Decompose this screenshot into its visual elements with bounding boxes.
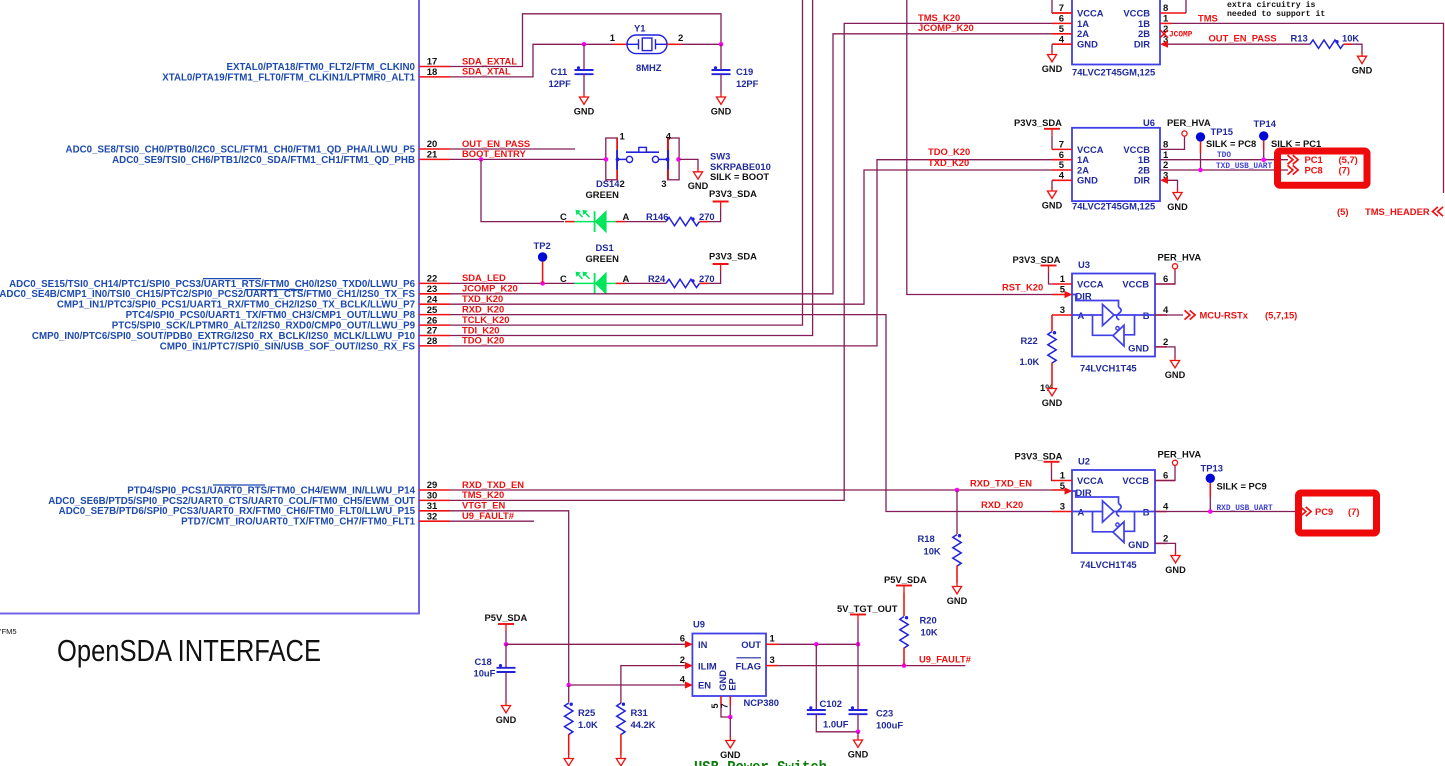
capacitor C23 bbox=[849, 709, 868, 711]
PER_HVA pin circle U2 bbox=[1172, 460, 1177, 465]
svg-text:R13: R13 bbox=[1291, 33, 1308, 44]
node OUT / 5V_TGT_OUT bbox=[856, 642, 861, 647]
svg-text:USB Power Switch: USB Power Switch bbox=[694, 759, 827, 766]
svg-text:R24: R24 bbox=[648, 273, 666, 284]
wire U9_FAULT# pin32 dangling bbox=[450, 520, 534, 522]
U6 pin8 wire to PER_HVA bbox=[1160, 137, 1185, 150]
wire R18 to gnd bbox=[956, 566, 958, 584]
svg-text:PC8: PC8 bbox=[1305, 164, 1323, 175]
svg-text:SILK = BOOT: SILK = BOOT bbox=[710, 171, 769, 182]
svg-text:TMS_K20: TMS_K20 bbox=[462, 489, 504, 500]
svg-text:P5V_SDA: P5V_SDA bbox=[884, 574, 927, 585]
svg-text:U9_FAULT#: U9_FAULT# bbox=[919, 654, 972, 665]
pin 26 stub on K20 box bbox=[419, 324, 450, 326]
svg-text:EN: EN bbox=[698, 680, 711, 691]
power P3V3_SDA at U2 bbox=[1044, 461, 1060, 463]
wire RXD_TXD_EN junction to U2 DIR bbox=[957, 489, 1052, 491]
wire SW3 to gnd bbox=[679, 159, 698, 168]
wire P5V to U9 IN bbox=[505, 631, 507, 644]
svg-text:CMP0_IN0/PTC6/SPI0_SOUT/PDB0_E: CMP0_IN0/PTC6/SPI0_SOUT/PDB0_EXTRG/I2S0_… bbox=[32, 331, 416, 342]
svg-text:PER_HVA: PER_HVA bbox=[1158, 252, 1202, 263]
wire JCOMP_K20 pin23 to U5 bbox=[450, 34, 1052, 294]
wire crystal pin2 to C19 node bbox=[681, 43, 721, 45]
capacitor C11 bbox=[575, 69, 594, 71]
U3 pin1 stub bbox=[1052, 283, 1072, 285]
pin 18 stub on K20 box bbox=[419, 76, 450, 78]
svg-text:5: 5 bbox=[710, 703, 720, 708]
svg-text:1.0K: 1.0K bbox=[578, 719, 598, 730]
power 5V_TGT_OUT bbox=[850, 614, 866, 616]
svg-text:270: 270 bbox=[699, 273, 715, 284]
U2 pin3 stub bbox=[1052, 511, 1072, 513]
svg-text:GND: GND bbox=[574, 106, 595, 116]
wire R22 to gnd bbox=[1051, 363, 1053, 386]
svg-text:P3V3_SDA: P3V3_SDA bbox=[1013, 254, 1061, 265]
svg-text:P3V3_SDA: P3V3_SDA bbox=[709, 188, 757, 199]
node SW3 pin4 bbox=[676, 157, 681, 162]
svg-text:OUT_EN_PASS: OUT_EN_PASS bbox=[462, 138, 530, 149]
svg-text:ADC0_SE9/TSI0_CH6/PTB1/I2C0_SD: ADC0_SE9/TSI0_CH6/PTB1/I2C0_SDA/FTM1_CH1… bbox=[112, 155, 415, 166]
U2 internal bottom buffer triangle bbox=[1113, 522, 1124, 543]
svg-text:4: 4 bbox=[680, 675, 686, 686]
svg-text:SDA_XTAL: SDA_XTAL bbox=[462, 66, 511, 77]
U3 pin2 stub bbox=[1155, 346, 1167, 348]
U5 pin 2 no-connect X bbox=[1160, 30, 1168, 38]
svg-text:TCLK_K20: TCLK_K20 bbox=[462, 314, 509, 325]
svg-text:VCCA: VCCA bbox=[1077, 7, 1104, 18]
svg-text:4: 4 bbox=[666, 132, 672, 143]
svg-text:4: 4 bbox=[1059, 171, 1065, 182]
U5 pin 4 stub bbox=[1052, 43, 1072, 45]
svg-text:R25: R25 bbox=[578, 707, 595, 718]
pin 24 stub on K20 box bbox=[419, 303, 450, 305]
DS1 anode stub bbox=[616, 282, 625, 284]
wire R18 stem bbox=[956, 490, 958, 534]
svg-text:VCCB: VCCB bbox=[1123, 7, 1150, 18]
svg-text:21: 21 bbox=[427, 150, 438, 161]
svg-text:(7): (7) bbox=[1339, 164, 1350, 175]
svg-text:PER_HVA: PER_HVA bbox=[1167, 117, 1211, 128]
resistor R13 bbox=[1310, 40, 1344, 48]
crystal Y1 pin2 stub bbox=[667, 43, 681, 45]
wire U6 DIR to gnd bbox=[1168, 180, 1178, 189]
wire P3V3 to U3 pin1 bbox=[1049, 273, 1053, 285]
K20 MCU symbol box outline (OpenSDA interface section) bbox=[0, 0, 419, 614]
resistor R146 bbox=[666, 217, 700, 225]
svg-text:GND: GND bbox=[688, 181, 709, 191]
crystal Y1 pin1 stub bbox=[613, 43, 628, 45]
U3 pin3 stub bbox=[1052, 314, 1072, 316]
U5 GND pin4 wire bbox=[1051, 44, 1053, 52]
resistor R22 bbox=[1048, 332, 1056, 364]
svg-text:VCCB: VCCB bbox=[1122, 475, 1149, 486]
U3 internal A-B line bbox=[1072, 314, 1155, 316]
pin 31 stub on K20 box bbox=[419, 510, 450, 512]
svg-text:GND: GND bbox=[1128, 342, 1149, 353]
svg-text:10K: 10K bbox=[1342, 33, 1359, 44]
U6 pin 7 stub bbox=[1052, 148, 1072, 150]
crystal Y1 body bbox=[627, 35, 667, 54]
wire TCLK_K20 pin26 to top bbox=[450, 0, 803, 325]
wire P5V to R20 bbox=[903, 593, 905, 617]
svg-text:U3: U3 bbox=[1078, 259, 1090, 270]
chevron TMS_HEADER bbox=[1433, 207, 1438, 216]
ground below R13 bbox=[1361, 52, 1363, 56]
ground below C19 bbox=[720, 93, 722, 97]
U5 pin 1 stub TMS bbox=[1160, 22, 1172, 24]
svg-text:10uF: 10uF bbox=[474, 668, 496, 679]
svg-text:OUT: OUT bbox=[741, 639, 761, 650]
U5 pin 7 wire from top bbox=[1051, 0, 1053, 13]
svg-text:ADC0_SE6B/PTD5/SPI0_PCS2/UART0: ADC0_SE6B/PTD5/SPI0_PCS2/UART0_CTS/UART0… bbox=[48, 496, 415, 507]
svg-text:U6: U6 bbox=[1143, 117, 1155, 128]
wire TDO_K20 pin28 to U6 bbox=[450, 160, 1052, 346]
ground below C23 bbox=[857, 736, 859, 740]
svg-text:SKRPABE010: SKRPABE010 bbox=[710, 161, 771, 172]
wire U3 A to R22 bbox=[1051, 315, 1053, 331]
svg-text:5: 5 bbox=[1059, 24, 1065, 35]
svg-text:27: 27 bbox=[427, 326, 438, 337]
svg-text:GND: GND bbox=[1042, 64, 1063, 74]
svg-text:XTAL0/PTA19/FTM1_FLT0/FTM_CLKI: XTAL0/PTA19/FTM1_FLT0/FTM_CLKIN1/LPTMR0_… bbox=[162, 72, 415, 83]
U2 pin2 stub bbox=[1155, 542, 1167, 544]
wire TMS to right edge bbox=[1172, 23, 1444, 193]
ground below U5 bbox=[1051, 51, 1053, 55]
switch SW3 left contact body bbox=[606, 138, 618, 180]
resistor R20 bbox=[900, 617, 908, 649]
svg-text:(5): (5) bbox=[1337, 206, 1348, 217]
svg-text:C: C bbox=[560, 211, 567, 222]
U9 pin2 arrow bbox=[685, 662, 693, 669]
chevron PC1 bbox=[1288, 155, 1293, 164]
wire C18 stem bbox=[505, 644, 507, 667]
svg-text:3: 3 bbox=[661, 179, 666, 190]
svg-text:GND: GND bbox=[1042, 200, 1063, 210]
svg-text:C19: C19 bbox=[736, 66, 753, 77]
ground below R18 bbox=[956, 583, 958, 587]
svg-text:PTC5/SPI0_SCK/LPTMR0_ALT2/I2S0: PTC5/SPI0_SCK/LPTMR0_ALT2/I2S0_RXD0/CMP0… bbox=[112, 321, 416, 332]
svg-text:C11: C11 bbox=[551, 66, 568, 77]
U5 pin 6 stub bbox=[1052, 22, 1072, 24]
wire RXD_K20 pin25 to U2 bbox=[450, 315, 1052, 512]
svg-text:R22: R22 bbox=[1021, 335, 1038, 346]
svg-text:44.2K: 44.2K bbox=[631, 719, 656, 730]
svg-text:OpenSDA INTERFACE: OpenSDA INTERFACE bbox=[57, 634, 321, 668]
wire R25 to gnd bbox=[568, 734, 570, 755]
svg-text:C18: C18 bbox=[475, 656, 492, 667]
svg-text:32: 32 bbox=[427, 511, 438, 522]
power P3V3_SDA at U3 bbox=[1041, 265, 1057, 267]
svg-text:GND: GND bbox=[1352, 66, 1373, 76]
svg-text:ADC0_SE8/TSI0_CH0/PTB0/I2C0_SC: ADC0_SE8/TSI0_CH0/PTB0/I2C0_SCL/FTM1_CH0… bbox=[66, 144, 416, 155]
pin 27 stub on K20 box bbox=[419, 335, 450, 337]
wire U2 B to PC9 bbox=[1155, 511, 1298, 513]
svg-text:VCCA: VCCA bbox=[1077, 279, 1104, 290]
svg-text:GND: GND bbox=[1167, 202, 1188, 212]
node crystal pin2 / C19 bbox=[719, 42, 724, 47]
chevron MCU-RSTx bbox=[1185, 310, 1190, 319]
U9 pin7 stub below bbox=[729, 696, 731, 706]
svg-text:SILK = PC1: SILK = PC1 bbox=[1271, 138, 1321, 149]
SW3 actuator mechanism bbox=[626, 156, 632, 162]
DS14 anode stub bbox=[616, 221, 625, 223]
wire TXD_USB_UART U6 pin2 to PC8 bbox=[1160, 169, 1288, 171]
svg-text:TXD_K20: TXD_K20 bbox=[928, 157, 969, 168]
U3 internal top buffer triangle bbox=[1103, 304, 1115, 325]
pin 17 stub on K20 box bbox=[419, 66, 450, 68]
svg-text:PTD4/SPI0_PCS1/UART0_RTS/FTM0_: PTD4/SPI0_PCS1/UART0_RTS/FTM0_CH4/EWM_IN… bbox=[127, 485, 415, 496]
svg-text:17: 17 bbox=[427, 57, 438, 68]
wire FLAG to U9_FAULT# bbox=[778, 665, 965, 667]
ground below C18 bbox=[505, 702, 507, 706]
svg-text:1: 1 bbox=[620, 132, 626, 143]
U5 pin 3 DIR arrow bbox=[1160, 41, 1168, 48]
svg-text:TP14: TP14 bbox=[1254, 118, 1277, 129]
U3 internal DIR route bbox=[1073, 295, 1119, 308]
svg-text:extra circuitry is: extra circuitry is bbox=[1227, 0, 1316, 10]
svg-text:U9_FAULT#: U9_FAULT# bbox=[462, 510, 515, 521]
PER_HVA pin circle U3 bbox=[1172, 264, 1177, 269]
svg-text:needed to support it: needed to support it bbox=[1227, 9, 1325, 19]
svg-text:GREEN: GREEN bbox=[586, 253, 620, 264]
U5 pin 8 stub bbox=[1160, 12, 1186, 14]
svg-text:29: 29 bbox=[427, 480, 438, 491]
op-amp U6 74LVC2T45 body bbox=[1072, 128, 1160, 201]
svg-text:GND: GND bbox=[1077, 39, 1098, 50]
svg-text:FLAG: FLAG bbox=[735, 660, 761, 671]
overbar UART0_RTS (pin29) bbox=[213, 484, 265, 486]
U2 pin6 wire to PER_HVA bbox=[1155, 466, 1175, 481]
svg-text:(5,7,15): (5,7,15) bbox=[1265, 309, 1297, 320]
wire P3V3 to U2 pin1 bbox=[1051, 469, 1054, 481]
svg-text:MCU-RSTx: MCU-RSTx bbox=[1200, 309, 1249, 320]
U9 pin5 stub below bbox=[720, 696, 722, 706]
wire C11 to gnd bbox=[583, 74, 585, 93]
U3 pin6 stub bbox=[1155, 283, 1175, 285]
svg-text:U2: U2 bbox=[1078, 456, 1090, 467]
svg-text:1: 1 bbox=[610, 33, 616, 44]
svg-text:20: 20 bbox=[427, 139, 438, 150]
U3 internal bubble bbox=[1116, 327, 1119, 330]
wire R13 to gnd bbox=[1344, 44, 1363, 53]
svg-text:10K: 10K bbox=[921, 627, 938, 638]
resistor R18 bbox=[953, 535, 961, 567]
svg-text:TDO_K20: TDO_K20 bbox=[462, 335, 504, 346]
svg-text:10K: 10K bbox=[924, 546, 941, 557]
svg-text:RST_K20: RST_K20 bbox=[1002, 282, 1043, 293]
wire RXD_TXD_EN pin29 to U2 bbox=[450, 489, 957, 491]
U3 pin4 stub bbox=[1155, 314, 1167, 316]
R13 right stub bbox=[1344, 43, 1353, 45]
svg-text:JCOMP: JCOMP bbox=[1169, 32, 1193, 40]
power P5V_SDA at R20 bbox=[896, 585, 912, 587]
wire R31 to U9 ILIM bbox=[621, 666, 687, 703]
U9 pin3 FLAG stub bbox=[766, 665, 778, 667]
svg-text:ILIM: ILIM bbox=[698, 660, 717, 671]
svg-text:ADC0_SE4B/CMP1_IN0/TSI0_CH15/P: ADC0_SE4B/CMP1_IN0/TSI0_CH15/PTC2/SPI0_P… bbox=[0, 289, 415, 300]
svg-text:DS14: DS14 bbox=[596, 178, 620, 189]
wire TDO U6 pin1 to PC1 bbox=[1160, 159, 1288, 161]
svg-text:1B: 1B bbox=[1138, 18, 1150, 29]
power P3V3_SDA at U6 bbox=[1044, 128, 1060, 130]
svg-text:GREEN: GREEN bbox=[586, 189, 620, 200]
svg-text:2: 2 bbox=[678, 33, 683, 44]
svg-text:GND: GND bbox=[496, 715, 517, 725]
wire U2 pin2 to gnd bbox=[1155, 543, 1176, 552]
resistor R25 bbox=[565, 703, 573, 735]
pin 28 stub on K20 box bbox=[419, 345, 450, 347]
svg-text:2B: 2B bbox=[1138, 28, 1150, 39]
svg-text:RXD_TXD_EN: RXD_TXD_EN bbox=[970, 478, 1032, 489]
TP15 stem lower bbox=[1200, 153, 1202, 170]
wire U9 pins5/7 bracket bbox=[721, 706, 730, 718]
U2 pin1 stub bbox=[1052, 480, 1072, 482]
svg-text:BOOT_ENTRY: BOOT_ENTRY bbox=[462, 148, 526, 159]
svg-text:TP2: TP2 bbox=[534, 240, 551, 251]
svg-text:GND: GND bbox=[848, 749, 869, 759]
svg-text:74LVC2T45GM,125: 74LVC2T45GM,125 bbox=[1072, 67, 1155, 78]
svg-text:SDA_LED: SDA_LED bbox=[462, 272, 506, 283]
ground below R31 bbox=[620, 755, 622, 759]
node P5V / C18 / IN bbox=[504, 642, 509, 647]
svg-text:PTD7/CMT_IRO/UART0_TX/FTM0_CH7: PTD7/CMT_IRO/UART0_TX/FTM0_CH7/FTM0_FLT1 bbox=[181, 517, 415, 528]
U3 pin6 wire to PER_HVA bbox=[1155, 269, 1175, 284]
svg-text:GND: GND bbox=[711, 106, 732, 116]
svg-text:ADC0_SE7B/PTD6/SPI0_PCS3/UART0: ADC0_SE7B/PTD6/SPI0_PCS3/UART0_RX/FTM0_C… bbox=[59, 506, 416, 517]
svg-text:GND: GND bbox=[1077, 175, 1098, 186]
svg-text:CMP0_IN1/PTC7/SPI0_SIN/USB_SOF: CMP0_IN1/PTC7/SPI0_SIN/USB_SOF_OUT/I2S0_… bbox=[160, 341, 416, 352]
U3 pin5 DIR arrow bbox=[1065, 291, 1073, 298]
U5 pin 7 stubline bbox=[1052, 12, 1072, 14]
wire caps bottom join bbox=[816, 714, 858, 732]
wire U3 B to MCU-RSTx bbox=[1155, 314, 1183, 316]
led DS14 bbox=[575, 221, 595, 223]
wire BOOT_ENTRY down to DS14 row bbox=[481, 159, 564, 221]
svg-text:31: 31 bbox=[427, 501, 438, 512]
svg-text:RXD_USB_UART: RXD_USB_UART bbox=[1217, 505, 1273, 513]
U3 internal loop bbox=[1093, 315, 1114, 335]
wire OUT_EN_PASS to R13 bbox=[1168, 43, 1310, 45]
U9 pin4 arrow bbox=[685, 681, 693, 688]
PER_HVA pin circle U6 bbox=[1182, 131, 1187, 136]
testpoint TP2 bbox=[538, 252, 547, 261]
svg-text:JCOMP_K20: JCOMP_K20 bbox=[462, 283, 518, 294]
wire 5V_TGT_OUT stem to C23 bbox=[857, 622, 859, 710]
svg-text:NCP380: NCP380 bbox=[744, 697, 779, 708]
svg-text:GND: GND bbox=[947, 596, 968, 606]
U2 pin4 stub bbox=[1155, 511, 1167, 513]
U9 label FLAG overline bbox=[737, 657, 762, 659]
TP15 stem bbox=[1200, 142, 1202, 153]
svg-text:VCCA: VCCA bbox=[1077, 475, 1104, 486]
wire R25 stem bbox=[568, 685, 570, 703]
node BOOT_ENTRY branch to DS14 bbox=[479, 157, 484, 162]
svg-text:DIR: DIR bbox=[1134, 175, 1150, 186]
U6 pin 6 stub bbox=[1052, 159, 1072, 161]
wire R31 to gnd bbox=[620, 734, 622, 755]
svg-text:P3V3_SDA: P3V3_SDA bbox=[709, 251, 757, 262]
svg-text:U9: U9 bbox=[693, 619, 705, 630]
TP13 stem lower bbox=[1209, 497, 1211, 512]
svg-text:A: A bbox=[623, 211, 630, 222]
node OUT / C102 bbox=[814, 642, 819, 647]
svg-text:PER_HVA: PER_HVA bbox=[1158, 449, 1202, 460]
capacitor C19 bbox=[712, 69, 731, 71]
svg-text:22: 22 bbox=[427, 274, 438, 285]
svg-text:P3V3_SDA: P3V3_SDA bbox=[1015, 451, 1063, 462]
U3 internal bottom buffer triangle bbox=[1113, 325, 1124, 346]
R24 right stub bbox=[700, 282, 709, 284]
svg-text:5V_TGT_OUT: 5V_TGT_OUT bbox=[837, 603, 898, 614]
U6 pin 5 stub bbox=[1052, 169, 1072, 171]
svg-text:'FM5: 'FM5 bbox=[0, 627, 17, 636]
svg-text:12PF: 12PF bbox=[736, 78, 759, 89]
pin 21 stub on K20 box bbox=[419, 158, 450, 160]
wire C19 to gnd bbox=[720, 74, 722, 93]
node VTGT_EN / R25 bbox=[566, 683, 571, 688]
wire TXD_K20 pin24 to U6 bbox=[450, 170, 1052, 304]
ground below U9 bbox=[729, 737, 731, 741]
svg-text:C23: C23 bbox=[876, 708, 893, 719]
svg-text:1.0K: 1.0K bbox=[1020, 356, 1040, 367]
svg-text:2: 2 bbox=[620, 179, 625, 190]
U2 pin5 DIR arrow bbox=[1065, 487, 1073, 494]
svg-text:6: 6 bbox=[680, 634, 685, 645]
svg-text:2A: 2A bbox=[1077, 28, 1089, 39]
svg-text:C: C bbox=[560, 273, 567, 284]
node SW3 pin1 bbox=[604, 157, 609, 162]
svg-text:TP13: TP13 bbox=[1201, 463, 1223, 474]
svg-text:RXD_TXD_EN: RXD_TXD_EN bbox=[462, 479, 524, 490]
svg-text:VCCB: VCCB bbox=[1122, 279, 1149, 290]
node TP15 on TXD_USB_UART bbox=[1198, 168, 1203, 173]
wire C102 stem bbox=[815, 644, 817, 709]
wire VTGT_EN pin31 down to U9 EN bbox=[450, 511, 687, 685]
wire OUT to nodes bbox=[778, 643, 858, 645]
U2 internal DIR route bbox=[1073, 491, 1119, 504]
U2 pin6 stub bbox=[1155, 480, 1175, 482]
wire R20 to FLAG node bbox=[903, 648, 905, 666]
svg-text:30: 30 bbox=[427, 491, 438, 502]
wire P3V3 to U6 pin7 bbox=[1051, 136, 1053, 150]
U6 GND pin4 wire bbox=[1051, 180, 1053, 188]
capacitor C102 bbox=[807, 709, 826, 711]
power P3V3_SDA above R146 bbox=[713, 201, 729, 203]
node RXD_TXD_EN / R18 bbox=[955, 488, 960, 493]
svg-text:270: 270 bbox=[699, 211, 715, 222]
U2 internal top buffer triangle bbox=[1103, 501, 1115, 522]
svg-text:25: 25 bbox=[427, 305, 438, 316]
wire SDA_EXTAL pin17 to top loop bbox=[450, 14, 721, 67]
svg-text:74LVCH1T45: 74LVCH1T45 bbox=[1080, 559, 1137, 570]
node crystal pin1 / C11 bbox=[582, 42, 587, 47]
svg-text:4: 4 bbox=[1059, 34, 1065, 45]
wire RST_K20 from top to U3 bbox=[907, 0, 1052, 295]
wire R24 to P3V3_SDA bbox=[700, 271, 721, 283]
TP14 stem lower bbox=[1263, 150, 1265, 160]
U6 pin 4 stub bbox=[1052, 179, 1072, 181]
svg-text:6: 6 bbox=[1059, 14, 1064, 25]
svg-text:CMP1_IN1/PTC3/SPI0_PCS1/UART1_: CMP1_IN1/PTC3/SPI0_PCS1/UART1_RX/FTM0_CH… bbox=[57, 300, 415, 311]
wire TDI_K20 pin27 to top bbox=[450, 0, 813, 336]
power P3V3_SDA above R24 bbox=[713, 263, 729, 265]
U5 pin 5 stub bbox=[1052, 33, 1072, 35]
wire U3 pin2 to gnd bbox=[1155, 347, 1175, 358]
svg-text:EXTAL0/PTA18/FTM0_FLT2/FTM_CLK: EXTAL0/PTA18/FTM0_FLT2/FTM_CLKIN0 bbox=[226, 62, 415, 73]
wire P5V node to U9 IN pin bbox=[506, 643, 687, 645]
chevron PC9 bbox=[1301, 507, 1306, 516]
capacitor C18 bbox=[497, 667, 516, 669]
